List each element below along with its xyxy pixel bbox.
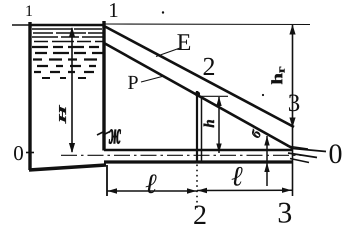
tank left wall bbox=[28, 22, 31, 170]
dim l2 left arrowhead bbox=[198, 188, 208, 193]
label l (second span) bbox=[232, 167, 243, 186]
break tick 2 bbox=[105, 132, 110, 135]
label 0 (left) bbox=[14, 146, 23, 160]
tank bottom bbox=[29, 165, 106, 170]
section line 1-1 left tick bbox=[12, 24, 30, 26]
label 1 (left) bbox=[26, 5, 32, 16]
dimension line l (inlet to section 2) bbox=[107, 190, 197, 192]
section 2 head bottom arrowhead bbox=[216, 144, 221, 154]
pressure head label (rotated, under P line) bbox=[252, 129, 260, 138]
leader line for P label bbox=[141, 76, 164, 82]
section 2 head top arrowhead bbox=[216, 97, 221, 107]
pressure head top arrowhead bbox=[264, 136, 269, 146]
outlet jet line 4 bbox=[290, 159, 309, 163]
leader line for E label bbox=[156, 48, 180, 57]
label 2 (bottom) bbox=[194, 205, 205, 224]
section 2 head dimension line bbox=[218, 97, 220, 153]
break tick on tank right wall bbox=[97, 132, 103, 135]
dimension H top arrowhead bbox=[69, 27, 75, 37]
speck near section 3 bbox=[262, 94, 264, 96]
label E bbox=[177, 34, 190, 50]
piezometer level tick bbox=[197, 95, 228, 97]
label 0 (right) bbox=[330, 144, 342, 163]
speck near top bbox=[162, 11, 164, 13]
top reference line from water surface bbox=[105, 23, 310, 26]
label l (first span) bbox=[146, 174, 157, 193]
pipe axis centerline 0-0 bbox=[61, 154, 304, 156]
outlet jet line 1 bbox=[287, 146, 308, 149]
dim l1 right arrowhead bbox=[187, 188, 197, 193]
label 2 (top, above E line) bbox=[204, 58, 214, 75]
hr bottom arrowhead on E line bbox=[289, 118, 295, 128]
outlet jet line 3 bbox=[288, 153, 317, 158]
pipe bottom wall bbox=[104, 160, 293, 163]
extension line at section 1 (pipe inlet) bbox=[106, 165, 108, 196]
label 3 (right) bbox=[289, 94, 299, 111]
section 3 / hr dimension line bbox=[292, 25, 294, 196]
section 2 head label (rotated) bbox=[204, 120, 214, 127]
piezometer tube left wall / section 2 line bbox=[196, 91, 198, 164]
piezometer top dot bbox=[195, 91, 200, 96]
pressure head dimension line near section 3 bbox=[266, 136, 268, 186]
piezometric line P bbox=[104, 43, 293, 149]
energy line E bbox=[104, 26, 294, 127]
label 3 (bottom) bbox=[279, 203, 291, 223]
dim l2 right arrowhead bbox=[282, 188, 292, 193]
label ж (liquid) bbox=[109, 129, 121, 143]
piezometer tube right wall bbox=[201, 97, 203, 164]
water surface line bbox=[30, 24, 105, 27]
dimension H line bbox=[71, 28, 73, 152]
label hr (rotated) bbox=[271, 67, 284, 84]
hr top arrowhead bbox=[289, 25, 295, 35]
label H (rotated) bbox=[59, 105, 66, 124]
water hatching bbox=[32, 29, 103, 78]
label 1 (top of tank right wall) bbox=[110, 3, 117, 17]
pipe top wall bbox=[104, 149, 293, 151]
dotted extension line at section 2 bbox=[196, 165, 198, 209]
tank right wall bbox=[102, 21, 105, 151]
dimension line l (section 2 to 3) bbox=[197, 189, 292, 191]
pressure head lower arrowhead bbox=[264, 163, 269, 173]
dim l1 left arrowhead bbox=[108, 188, 118, 193]
datum tick on left wall bbox=[26, 152, 34, 154]
dimension H bottom arrowhead bbox=[69, 143, 75, 153]
label P bbox=[128, 76, 138, 89]
outlet jet line 2 (datum continuation) bbox=[293, 149, 326, 152]
